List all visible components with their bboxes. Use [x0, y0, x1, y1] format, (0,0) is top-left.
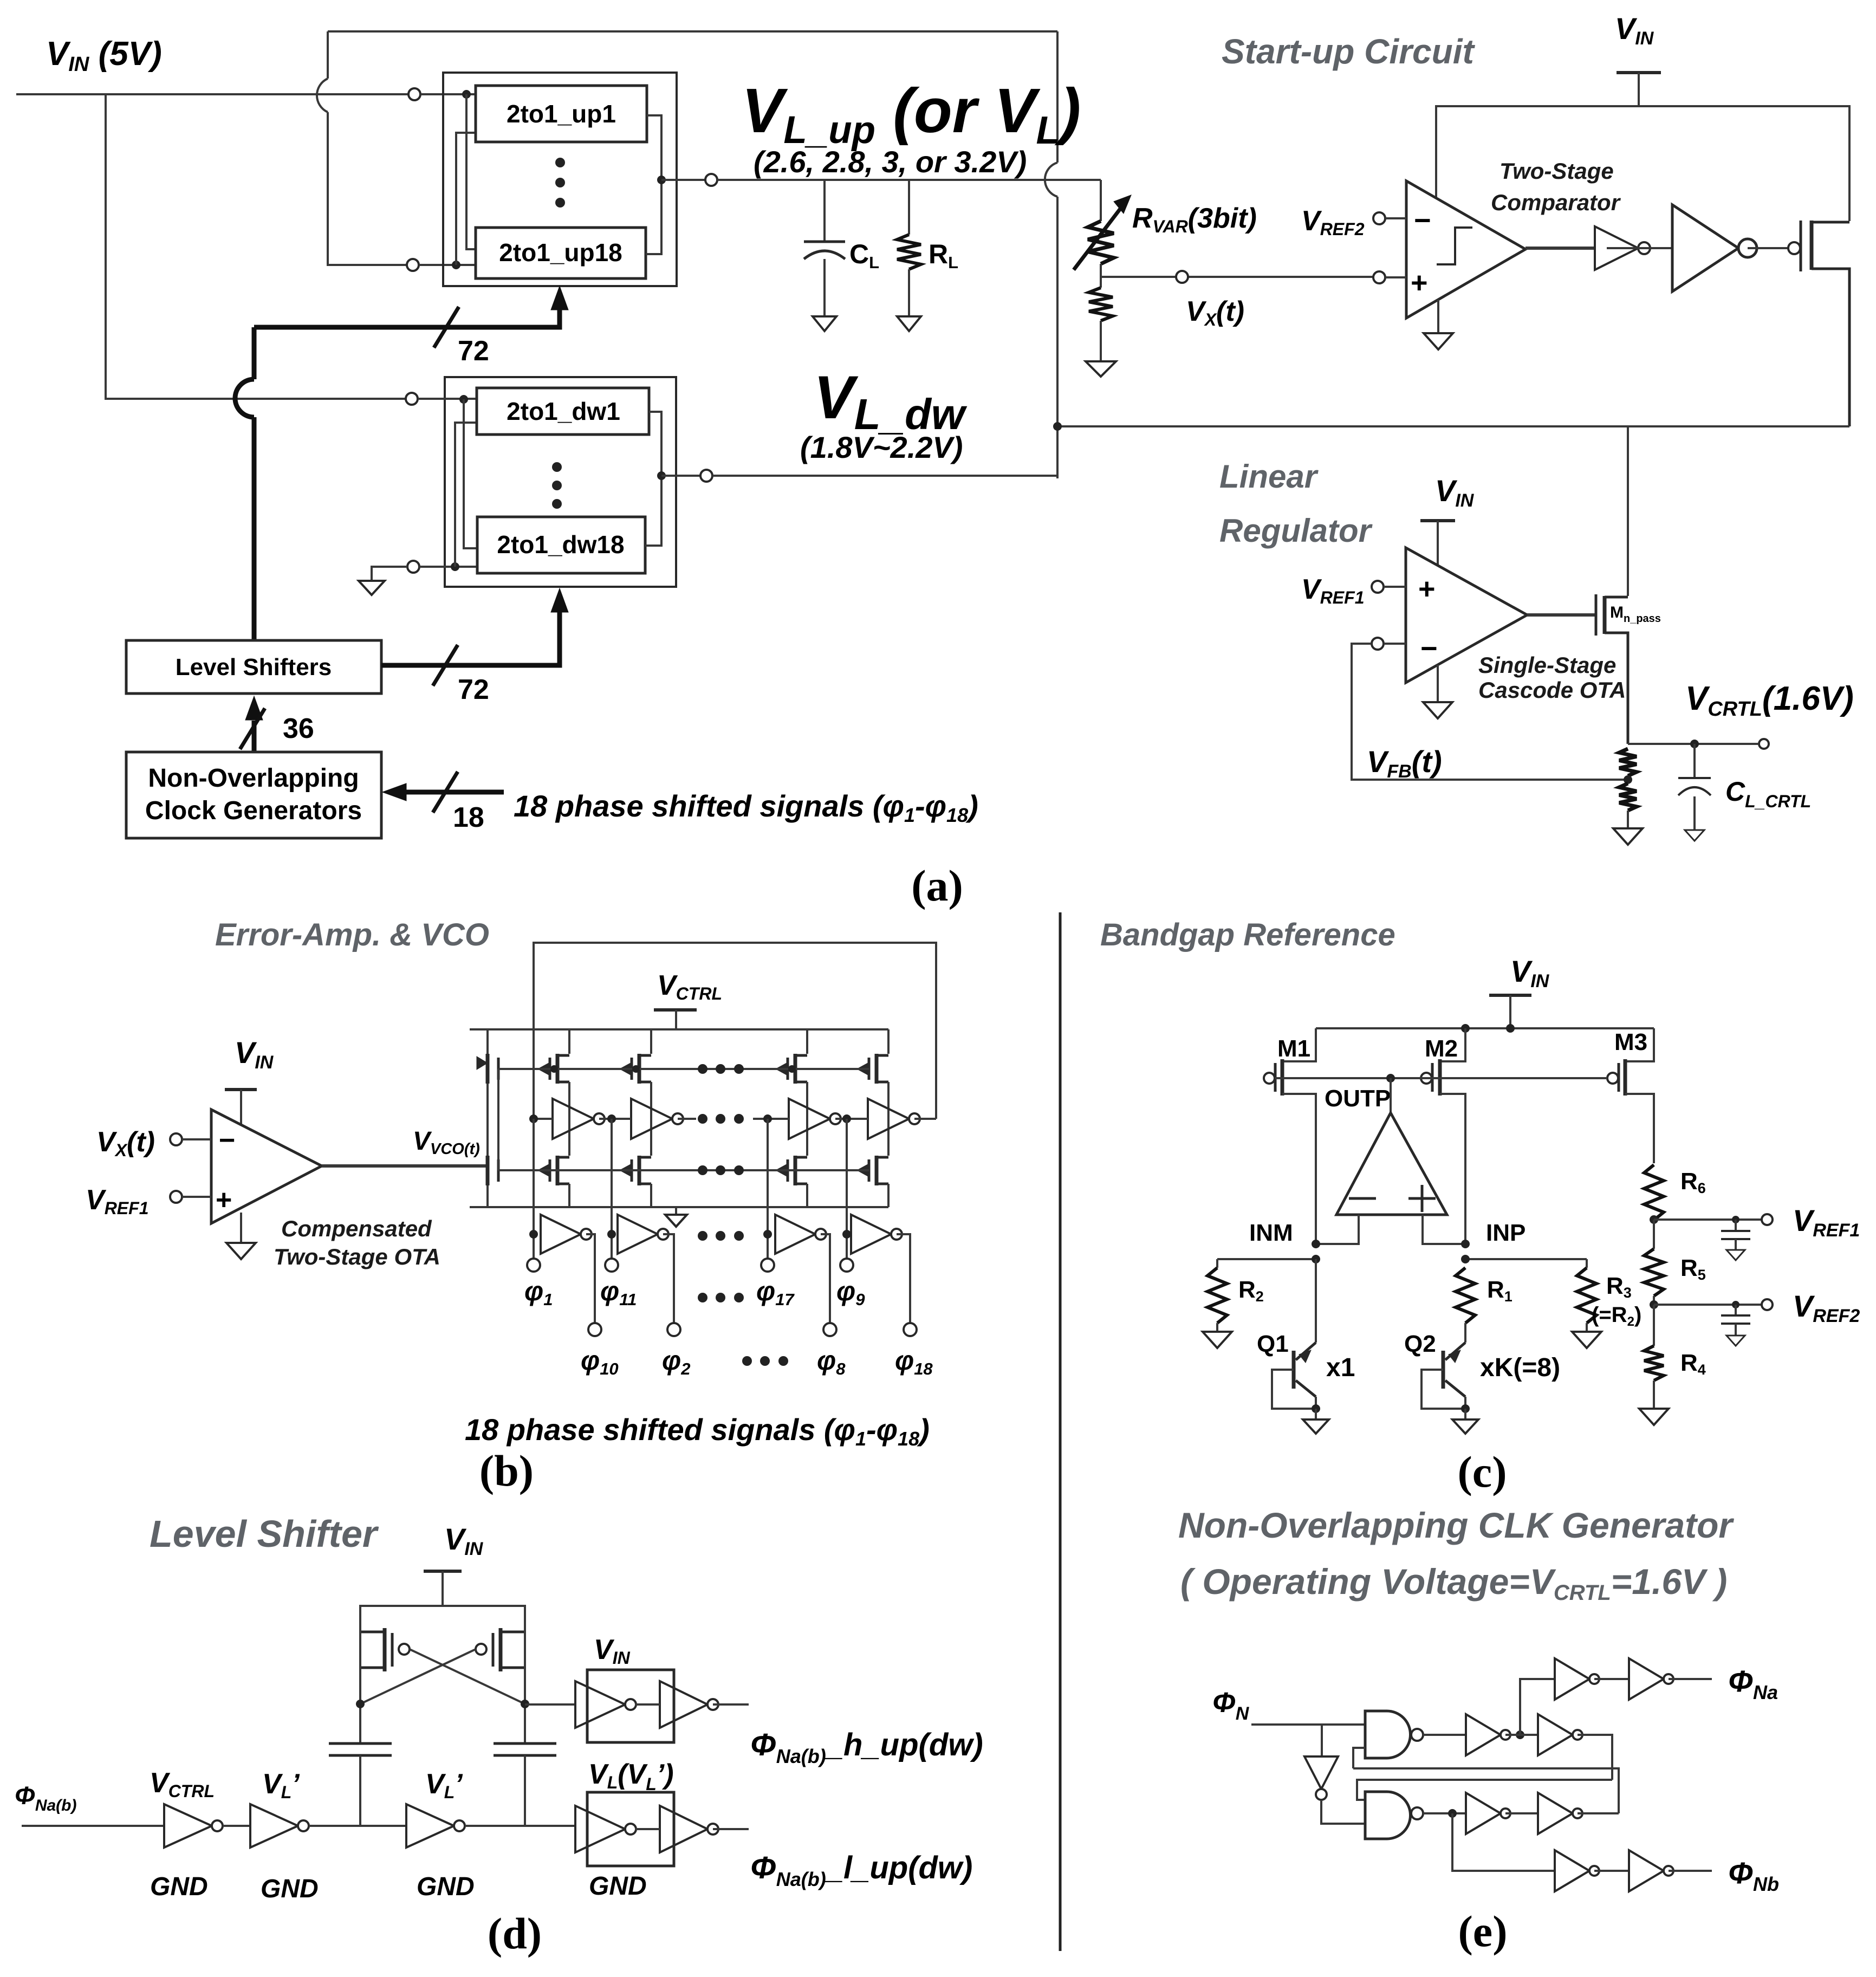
wire VL_up node: [717, 179, 1101, 181]
ground divider linreg: [1613, 828, 1643, 845]
op-amp single stage OTA: [1406, 548, 1527, 683]
terminal VCRTL: [1759, 739, 1769, 749]
ground R4: [1653, 1380, 1655, 1409]
ground linreg OTA: [1437, 665, 1439, 702]
node up output junction: [657, 176, 666, 184]
svg-text:72: 72: [458, 335, 489, 367]
resistor divider lower: [1100, 277, 1102, 288]
inverter A2: [1538, 1714, 1573, 1755]
op-amp error amp OTA: [211, 1110, 322, 1223]
terminal VREF1 linreg: [1372, 581, 1384, 593]
wire NAND1 out to A1: [1423, 1734, 1466, 1736]
inverter D2: [1629, 1850, 1664, 1891]
wire feedback loop: [1352, 644, 1628, 780]
wire NAND1 inputs: [1353, 1748, 1365, 1768]
inverter B1: [1466, 1793, 1501, 1834]
resistor RVAR variable 3bit: [1100, 180, 1102, 221]
gate NAND2: [1365, 1792, 1411, 1839]
ground Q1: [1303, 1419, 1329, 1434]
wire cross pair top rail: [360, 1606, 525, 1632]
inverter VCO buffer 1: [541, 1215, 581, 1254]
svg-text:2to1_up1: 2to1_up1: [507, 100, 616, 128]
node VFB tap: [1624, 775, 1632, 784]
svg-text:(2.6, 2.8, 3, or 3.2V): (2.6, 2.8, 3, or 3.2V): [754, 145, 1027, 179]
wire node B to h chain: [525, 1703, 575, 1706]
svg-text:OUTP: OUTP: [1325, 1085, 1391, 1112]
block 2to1_dw1: [477, 388, 649, 435]
wire VX node: [1101, 276, 1373, 278]
inverter D1: [1555, 1850, 1589, 1891]
wire bandgap VIN rail: [1316, 1027, 1654, 1029]
svg-text:M2: M2: [1425, 1035, 1458, 1062]
wire VCO column col1: [568, 1082, 570, 1156]
resistor R6: [1644, 1165, 1664, 1220]
wire VIN to up18 upper input: [466, 94, 476, 249]
inverter LS 2: [250, 1804, 298, 1848]
wire VCTRL rail: [470, 1028, 888, 1030]
inverter A1: [1466, 1714, 1501, 1755]
svg-text:+: +: [1418, 573, 1436, 605]
wire VIN main horizontal: [16, 93, 408, 95]
terminal feedback input: [1372, 638, 1384, 650]
svg-text:Two-Stage: Two-Stage: [1499, 158, 1614, 184]
wire NAND2 out to B1: [1423, 1812, 1466, 1814]
svg-text:(b): (b): [479, 1446, 534, 1495]
capacitor VREF2: [1732, 1301, 1739, 1308]
wire VCO bottom rail: [470, 1206, 888, 1208]
wire input chain: [22, 1825, 164, 1827]
hysteresis symbol: [1437, 228, 1472, 264]
power VCTRL bar: [654, 1008, 697, 1012]
terminals even phases: [588, 1323, 601, 1336]
wire 2-3: [309, 1825, 406, 1827]
wire l out: [635, 1828, 660, 1830]
svg-text:VIN (5V): VIN (5V): [46, 35, 162, 76]
buffer input junction dots: [529, 1230, 538, 1239]
resistor R2: [1216, 1259, 1218, 1268]
capacitor VREF1: [1732, 1216, 1739, 1223]
svg-text:(e): (e): [1458, 1907, 1507, 1956]
wire right branch: [524, 1606, 526, 1743]
svg-text:GND: GND: [261, 1875, 319, 1903]
ground divider: [1086, 361, 1116, 377]
inverter VCO ring 1: [553, 1099, 594, 1139]
svg-text:M3: M3: [1614, 1029, 1647, 1055]
block Non-Overlapping Clock Generators: [126, 752, 381, 838]
transistor pass PMOS startup: [1788, 242, 1800, 254]
transistor LS PMOS left: [383, 1628, 387, 1671]
ground CL: [813, 316, 836, 331]
svg-text:x1: x1: [1326, 1353, 1355, 1382]
wire loop to dw1 lower input: [455, 423, 477, 567]
svg-text:RVAR(3bit): RVAR(3bit): [1132, 203, 1257, 236]
block 2to1_up1: [476, 86, 647, 142]
svg-text:Start-up Circuit: Start-up Circuit: [1222, 32, 1475, 71]
wire loop to up1 lower input: [456, 133, 476, 265]
wire VCO column col3: [806, 1082, 808, 1156]
bus 72 to up converters: [254, 303, 560, 327]
svg-text:(d): (d): [488, 1909, 542, 1958]
wire to PhiNa buffers: [1520, 1679, 1555, 1735]
wire VCO column col2: [650, 1082, 652, 1156]
svg-text:Q2: Q2: [1404, 1331, 1436, 1357]
wire startup VIN rail: [1436, 106, 1849, 221]
node junction dw loop: [451, 562, 459, 571]
inverter VCO ring 4: [868, 1099, 909, 1139]
inverter h1: [575, 1681, 625, 1728]
svg-text:Error-Amp. & VCO: Error-Amp. & VCO: [215, 917, 489, 952]
terminal VX: [1176, 271, 1188, 283]
wire gate tie master: [497, 1069, 499, 1170]
svg-text:2to1_dw1: 2to1_dw1: [507, 397, 620, 425]
divider vertical line: [1059, 912, 1062, 1951]
svg-text:INP: INP: [1486, 1220, 1526, 1246]
bus 18 phase input: [404, 790, 504, 795]
svg-text:−: −: [1420, 632, 1438, 665]
svg-text:M1: M1: [1277, 1035, 1310, 1062]
terminal input dw1: [406, 393, 418, 405]
terminal VL_up output: [705, 174, 717, 186]
wire upper feedback (B to NAND1): [1353, 1768, 1619, 1813]
wire lower feedback (A to NAND2): [1357, 1780, 1612, 1800]
terminal input dw18 grounded: [407, 561, 419, 573]
wire INP row: [1465, 1258, 1587, 1260]
bus 72 to dw converters: [381, 606, 560, 665]
svg-text:(a): (a): [911, 861, 963, 910]
block Level Shifters: [126, 640, 381, 693]
wire PhiN input: [1251, 1723, 1365, 1726]
wire top feedback loop: [328, 112, 407, 265]
terminal VREF1 input: [170, 1191, 182, 1203]
wire VIN to dw18 upper input: [464, 399, 477, 548]
inverter LS 3: [406, 1804, 454, 1848]
buffer outputs to even phase terminals: [586, 1234, 595, 1324]
svg-text:Two-Stage OTA: Two-Stage OTA: [274, 1244, 440, 1269]
inverter VCO ring 2: [631, 1099, 672, 1139]
node junction dw VIN: [459, 395, 468, 404]
svg-text:Level Shifter: Level Shifter: [150, 1513, 379, 1555]
svg-text:Level Shifters: Level Shifters: [176, 654, 332, 680]
transistor Mn_pass: [1595, 594, 1598, 636]
terminal input up1: [408, 88, 420, 100]
wire A2 out crossfeed: [1578, 1735, 1612, 1780]
resistor R4: [1653, 1305, 1655, 1346]
wire loop right side down with hop over VL_up: [1056, 31, 1059, 163]
node to pass transistor: [1627, 426, 1629, 596]
svg-text:GND: GND: [417, 1872, 475, 1901]
inverter LS 1: [164, 1804, 212, 1848]
svg-text:+: +: [216, 1184, 232, 1216]
svg-text:Q1: Q1: [1257, 1331, 1289, 1357]
capacitor LS left: [329, 1742, 392, 1745]
wire VL_dw node to loop: [712, 475, 1057, 477]
svg-text:(=R2): (=R2): [1592, 1303, 1641, 1329]
inverter h2: [660, 1681, 707, 1728]
wire OTA output to pass gate: [1527, 613, 1596, 617]
svg-text:VL(VL’): VL(VL’): [588, 1759, 674, 1794]
transistor LS PMOS right: [499, 1628, 503, 1671]
ground error amp: [240, 1213, 242, 1243]
box h buffer supply: [587, 1670, 674, 1742]
inverter l1: [575, 1806, 625, 1852]
wire comparator output: [1526, 247, 1595, 250]
capacitor CL_CRTL: [1690, 740, 1699, 748]
bus 36 clocks to level shifters: [252, 721, 257, 752]
transistor VCO NMOS col3: [794, 1156, 797, 1185]
tap verticals to outputs: [533, 1119, 535, 1259]
inverter VCO buffer 2: [618, 1215, 658, 1254]
op-amp bandgap (output up): [1390, 1078, 1392, 1113]
wire inv2 to pass gate: [1748, 247, 1788, 249]
transistor VCO NMOS col2: [638, 1156, 641, 1185]
terminal Vx input: [170, 1133, 182, 1145]
wire left branch: [359, 1606, 361, 1743]
transistor VCO NMOS col1: [556, 1156, 560, 1185]
node VREF1: [1650, 1215, 1658, 1224]
wire startup output to VL_dw net: [1057, 425, 1849, 427]
wire inv1 to inv2: [1607, 247, 1672, 249]
wire cross couple diagonals: [410, 1649, 525, 1704]
svg-text:36: 36: [283, 713, 314, 744]
transistor VCO PMOS col4: [887, 1029, 890, 1054]
inverter B2: [1538, 1793, 1573, 1834]
ground comparator: [1437, 300, 1439, 333]
wire op-amp inputs: [1316, 1215, 1359, 1244]
node dw output junction: [657, 471, 666, 480]
inverter startup 2: [1672, 205, 1738, 291]
transistor VCO PMOS col2: [650, 1029, 652, 1054]
wire VIN branch down to dw section: [106, 94, 406, 399]
wire h out: [635, 1703, 660, 1706]
node A tap: [1516, 1730, 1524, 1739]
bus 72 vertical from level shifters: [252, 327, 257, 379]
inverter VCO buffer 4: [851, 1215, 891, 1254]
svg-text:Non-Overlapping CLK Generator: Non-Overlapping CLK Generator: [1178, 1505, 1734, 1545]
svg-text:Bandgap Reference: Bandgap Reference: [1100, 917, 1395, 952]
ground RL: [897, 316, 921, 331]
inverter VCO buffer 3: [775, 1215, 815, 1254]
svg-text:Linear: Linear: [1219, 458, 1319, 495]
wire to PhiNb buffers: [1452, 1813, 1555, 1871]
wire VCO feedback top: [534, 943, 936, 1119]
resistor R1: [1456, 1268, 1475, 1323]
svg-text:Clock Generators: Clock Generators: [145, 796, 362, 825]
svg-text:Non-Overlapping: Non-Overlapping: [148, 764, 359, 793]
svg-text:INM: INM: [1249, 1220, 1293, 1246]
ground Q2: [1452, 1419, 1478, 1434]
inverter PhiN down: [1321, 1725, 1323, 1756]
wire up output bus: [646, 115, 661, 254]
resistor RL: [908, 180, 910, 235]
terminal input up18: [407, 259, 419, 271]
svg-text:Compensated: Compensated: [281, 1216, 432, 1241]
svg-text:Cascode OTA: Cascode OTA: [1478, 677, 1626, 703]
inverter C1: [1555, 1658, 1589, 1700]
svg-text:18: 18: [453, 802, 484, 833]
resistor R5: [1653, 1220, 1655, 1249]
svg-text:−: −: [219, 1125, 235, 1156]
box inner container up converters: [443, 73, 677, 286]
dots vertical ellipsis up: [555, 158, 565, 167]
wire VVCO output: [322, 1164, 488, 1168]
svg-text:2to1_dw18: 2to1_dw18: [497, 530, 624, 559]
resistor R3: [1586, 1259, 1588, 1268]
svg-text:GND: GND: [150, 1872, 208, 1901]
capacitor CL: [823, 180, 826, 242]
node junction loop feed: [452, 261, 460, 269]
resistor feedback lower: [1619, 783, 1637, 811]
resistor feedback upper: [1619, 749, 1637, 776]
wire INM row: [1217, 1258, 1316, 1260]
inverter C2: [1629, 1658, 1664, 1700]
svg-text:Single-Stage: Single-Stage: [1478, 652, 1616, 678]
wire NMOS bias line: [498, 1169, 869, 1171]
wire VCO column col4: [887, 1082, 890, 1156]
svg-text:Comparator: Comparator: [1491, 190, 1621, 215]
svg-text:(1.8V~2.2V): (1.8V~2.2V): [800, 430, 963, 464]
ground dw input: [359, 581, 385, 595]
dots vertical ellipsis dw: [552, 462, 562, 472]
ground R2: [1203, 1332, 1232, 1348]
wire hop of loop over VIN wire: [317, 79, 328, 112]
dots ellipsis bias rows: [698, 1064, 707, 1074]
box l buffer supply: [587, 1792, 674, 1866]
terminal comparator plus input: [1373, 271, 1385, 283]
wire PMOS bias line: [498, 1068, 869, 1070]
block 2to1_dw18: [477, 517, 645, 573]
wire VCRTL node: [1628, 743, 1758, 745]
svg-text:+: +: [1411, 267, 1428, 299]
inverter startup 1: [1595, 226, 1638, 270]
svg-text:(c): (c): [1457, 1447, 1507, 1496]
inverter l2: [660, 1806, 707, 1852]
transistor VCO PMOS col3: [806, 1029, 808, 1054]
wire ring row connections: [534, 1118, 553, 1120]
svg-text:Regulator: Regulator: [1219, 513, 1373, 549]
svg-text:−: −: [1414, 204, 1431, 237]
svg-text:( Operating Voltage=VCRTL=1.6V: ( Operating Voltage=VCRTL=1.6V ): [1180, 1561, 1727, 1605]
inverter VCO ring 3: [789, 1099, 830, 1139]
svg-text:72: 72: [458, 674, 489, 705]
wire dw output bus: [645, 412, 661, 546]
ground VCTRL mini: [665, 1215, 687, 1227]
op-amp comparator: [1406, 181, 1526, 318]
box inner container dw converters: [445, 377, 676, 587]
block 2to1_up18: [476, 228, 646, 278]
node VREF2: [1653, 1296, 1655, 1305]
wire dw18 lower input to ground: [372, 567, 407, 581]
transistor VCO NMOS col4: [875, 1156, 879, 1185]
capacitor LS right: [494, 1742, 556, 1745]
gate NAND1: [1365, 1711, 1411, 1758]
svg-text:xK(=8): xK(=8): [1480, 1353, 1560, 1382]
ground VCO rail: [675, 1207, 677, 1215]
terminal VREF2: [1373, 212, 1385, 224]
wire 3-lower pair: [465, 1825, 575, 1827]
svg-text:2to1_up18: 2to1_up18: [499, 238, 622, 267]
svg-text:GND: GND: [589, 1872, 647, 1901]
node junction up VIN: [462, 90, 471, 99]
wire gate bus OUTP: [1275, 1077, 1607, 1079]
ground R3: [1572, 1332, 1601, 1348]
transistor master bias pair: [486, 1029, 489, 1054]
transistor VCO PMOS col1: [568, 1029, 570, 1054]
wire 1-2: [223, 1825, 250, 1827]
terminal VL_dw output: [700, 470, 712, 482]
terminals odd phases: [527, 1259, 540, 1272]
